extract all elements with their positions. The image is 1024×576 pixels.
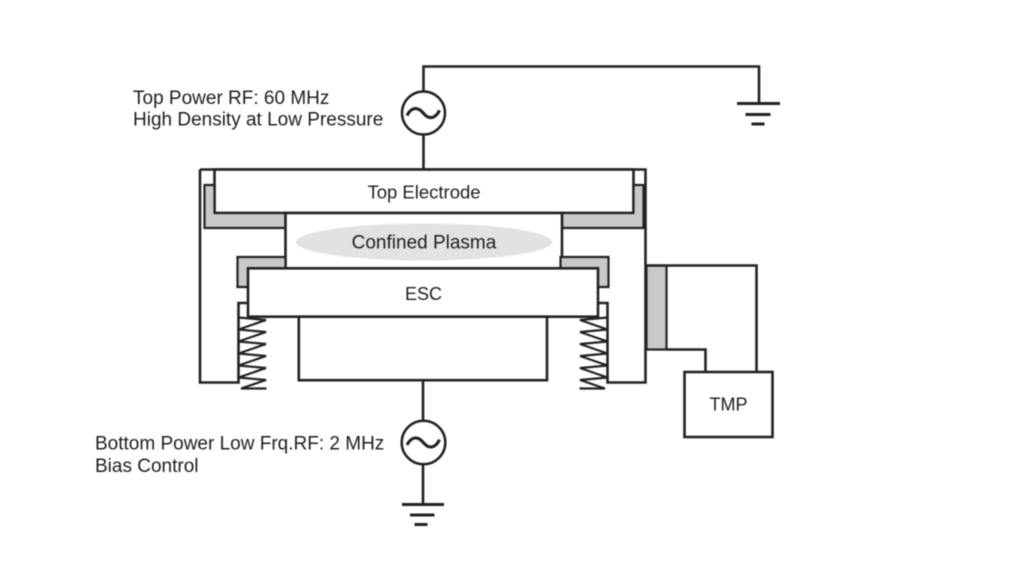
wire from pedestal to RF source V2 xyxy=(422,380,425,421)
svg-text:TMP: TMP xyxy=(710,395,748,415)
chamber wall (vacuum vessel outline) xyxy=(200,170,646,383)
pump port block (gray) xyxy=(647,266,667,350)
TMP box (turbo molecular pump) xyxy=(685,372,773,437)
RF source V1 60 MHz (AC source circle with sine) xyxy=(402,92,445,135)
svg-text:High Density at Low Pressure: High Density at Low Pressure xyxy=(133,110,383,131)
bottom electrode pedestal xyxy=(299,317,547,381)
plasma region box xyxy=(286,213,563,269)
wire from top RF source to top-right ground xyxy=(424,67,760,103)
wire from RF source V1 to top electrode xyxy=(422,135,425,170)
wire from RF source V2 to bottom ground xyxy=(422,464,425,503)
duct wire lower: chamber to TMP xyxy=(667,350,706,373)
confinement ring support left (gray L) xyxy=(205,185,286,228)
spring right xyxy=(580,318,608,389)
ESC support gray L left xyxy=(238,257,286,287)
svg-text:Bias Control: Bias Control xyxy=(95,456,199,477)
svg-text:Top Electrode: Top Electrode xyxy=(367,182,480,203)
svg-text:Bottom Power Low Frq.RF: 2 MHz: Bottom Power Low Frq.RF: 2 MHz xyxy=(95,434,384,455)
top electrode box xyxy=(215,170,634,214)
ground (top right) xyxy=(737,104,780,125)
RF source V2 2 MHz (AC source circle with sine) xyxy=(402,421,446,465)
confinement ring support right (gray L) xyxy=(562,185,644,228)
confined plasma (gray ellipse) xyxy=(296,224,552,261)
svg-text:ESC: ESC xyxy=(405,284,442,304)
duct wire upper: chamber to TMP xyxy=(647,266,757,373)
svg-text:Confined Plasma: Confined Plasma xyxy=(352,233,497,254)
ESC box (electrostatic chuck) xyxy=(248,268,598,316)
svg-text:Top Power RF: 60 MHz: Top Power RF: 60 MHz xyxy=(133,88,329,109)
ground (bottom) xyxy=(402,505,444,525)
spring left xyxy=(239,318,267,389)
ESC support gray L right xyxy=(561,257,609,287)
